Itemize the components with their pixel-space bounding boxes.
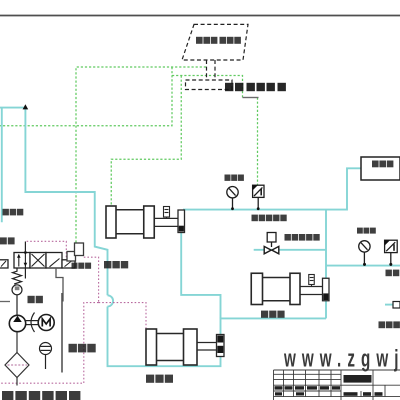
label: gauge P2 [357,228,376,234]
pressure sensor U3 [385,240,398,265]
label: pressure sensor U3 (cut at edge) [386,270,400,277]
label: high pressure (right edge, cut) [379,321,400,328]
label: oil source system (bottom, cut) [2,391,80,400]
monitor U0 (data acquisition computer), dashed trapezoid [182,24,248,89]
title block text marks [275,375,383,396]
wire: cyan stub at far left [1,108,3,223]
pump PU1 [9,315,25,331]
border frame top line [0,15,400,17]
label: cylinder CY1 [104,261,128,268]
label: pressure sensor U2 [252,215,287,222]
label: portable oscilloscope [225,83,286,91]
gauge P2 [359,241,370,266]
sensor on CY1 rod [164,207,170,219]
label: test piece [372,161,393,168]
monitor stand neck [206,60,208,80]
port block CY1 [179,226,184,232]
label: monitor text [196,37,241,44]
solenoid amp block [67,243,84,261]
breather B1 [40,343,52,370]
label: level gauge [69,344,96,353]
wire: magenta control lines [0,241,146,383]
check valve circle [12,285,22,295]
label: motor text [28,296,43,303]
wire: green branch to left edge [0,67,172,126]
watermark [283,346,400,372]
small fitting right edge [393,302,400,309]
label: gauge P1 [225,175,244,181]
filter F1 diamond [5,332,29,386]
title block table [274,370,400,400]
wire: green branch to cylinder CY1 displacement sensor [111,76,181,206]
sensor on CY2 rod [309,275,315,287]
wire: valve V1 return line [56,268,63,302]
monitor stand base [186,80,233,90]
cylinder CY1 [106,206,185,238]
tank wall line [61,293,63,373]
wire: gray link under oscilloscope label [243,97,259,99]
label: solenoid amp [72,263,92,269]
pressure sensor U2 [253,185,264,209]
wire: cyan high pressure lines right side [181,168,400,335]
wire: cyan hydraulic supply line from left edge with arrow [0,108,221,367]
wire: tank line stub left edge [0,301,10,303]
gauge P1 (pressure gauge) [227,187,238,210]
filter mesh dashed [8,364,28,366]
cylinder CY3 (low pressure) [146,329,224,365]
node: flow arrow on supply line [23,104,29,109]
wire: green signal bus left (monitor to solenoid amp) [0,67,258,243]
cylinder CY2 (booster) [251,273,329,304]
label: cylinder CY3 [146,375,173,383]
label: cylinder CY2 [261,311,285,318]
relief valve spring [12,268,22,315]
label: directional valve V1 (cut at left) [0,237,15,244]
test piece box [361,157,400,180]
port blocks CY3 [217,336,223,343]
directional valve V1 [0,253,75,269]
port block CY2 [323,293,328,300]
motor M1 [38,315,54,331]
wire: control line into valve V1 [24,242,26,253]
label: servo valve (left edge) [3,209,24,216]
control valve V2 (high pressure regulator) [267,233,276,248]
label: control valve V2 [285,234,320,241]
coupling [26,320,38,322]
wire: green branch to oscilloscope and pressure sensor U2 [172,76,243,98]
svg-text:www.zgwj: www.zgwj [283,346,400,372]
